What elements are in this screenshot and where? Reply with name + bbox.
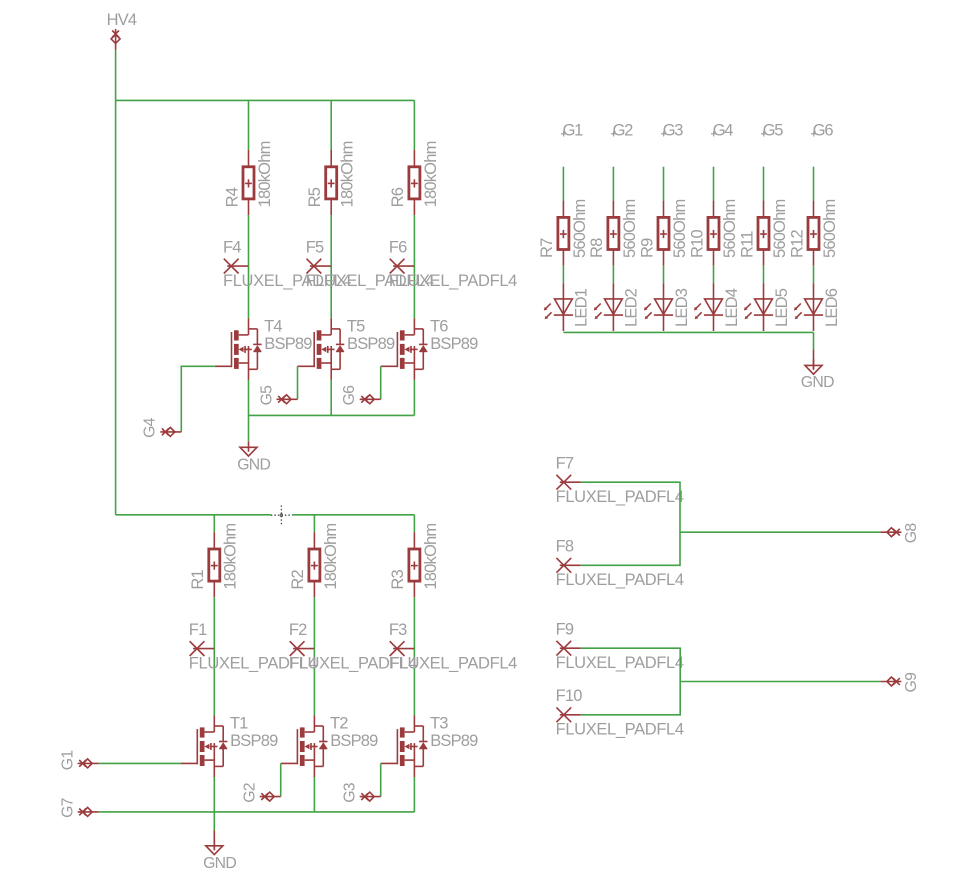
svg-text:G4: G4 — [713, 122, 734, 140]
resistor R5 — [326, 150, 337, 215]
ground — [206, 840, 223, 855]
wire top bus — [116, 99, 415, 101]
wire R12 to LED6 — [813, 266, 815, 284]
LED LED2 — [594, 283, 623, 331]
wire GND lead — [213, 831, 215, 851]
svg-text:FLUXEL_PADFL4: FLUXEL_PADFL4 — [556, 654, 684, 672]
svg-text:FLUXEL_PADFL4: FLUXEL_PADFL4 — [556, 721, 684, 739]
pad F1 FLUXEL_PADFL4 — [190, 641, 214, 656]
pad F10 FLUXEL_PADFL4 — [556, 707, 580, 722]
wire HV4 net vertical — [115, 50, 117, 101]
svg-text:F5: F5 — [306, 239, 324, 257]
resistor R1 — [209, 532, 220, 597]
svg-text:560Ohm: 560Ohm — [721, 199, 739, 258]
svg-text:F9: F9 — [556, 621, 574, 639]
resistor R6 — [409, 150, 420, 215]
svg-text:R5: R5 — [306, 187, 324, 207]
svg-text:G6: G6 — [341, 385, 358, 406]
svg-text:R3: R3 — [389, 569, 407, 589]
svg-text:560Ohm: 560Ohm — [621, 199, 639, 258]
wire cathode bus to GND — [813, 332, 815, 349]
svg-text:R4: R4 — [223, 187, 241, 207]
resistor R3 — [409, 532, 420, 597]
svg-text:BSP89: BSP89 — [330, 732, 378, 750]
resistor R7 — [558, 201, 569, 266]
pin G1 — [78, 759, 99, 768]
svg-text:G5: G5 — [763, 122, 784, 140]
svg-text:R7: R7 — [538, 238, 556, 258]
svg-text:LED6: LED6 — [823, 288, 841, 327]
wire G1 to R7 — [562, 167, 564, 201]
svg-text:R1: R1 — [189, 569, 207, 589]
svg-text:T6: T6 — [430, 317, 448, 335]
svg-text:F3: F3 — [389, 621, 407, 639]
resistor R12 — [808, 201, 819, 266]
svg-text:180kOhm: 180kOhm — [422, 141, 440, 207]
wire top block source bus — [249, 414, 415, 416]
wire T1 source to GND — [213, 777, 215, 831]
wire R11 to LED5 — [763, 266, 765, 284]
svg-text:G9: G9 — [903, 672, 920, 693]
svg-text:FLUXEL_PADFL4: FLUXEL_PADFL4 — [389, 272, 517, 290]
svg-text:G3: G3 — [341, 782, 358, 803]
wire T2 gate to G2 — [280, 763, 282, 796]
node G1 label — [561, 131, 566, 136]
svg-text:R9: R9 — [638, 238, 656, 258]
wire G7 line — [99, 811, 415, 813]
resistor R9 — [658, 201, 669, 266]
resistor R4 — [243, 150, 254, 215]
transistor T6 BSP89 — [381, 318, 428, 380]
transistor T4 BSP89 — [215, 318, 262, 380]
pad F3 FLUXEL_PADFL4 — [390, 641, 414, 656]
svg-text:GND: GND — [203, 855, 236, 872]
svg-text:560Ohm: 560Ohm — [821, 199, 839, 258]
svg-text:R12: R12 — [788, 230, 806, 258]
wire GND lead — [813, 349, 815, 368]
origin crosshair — [271, 505, 292, 525]
svg-text:F2: F2 — [289, 621, 307, 639]
svg-text:BSP89: BSP89 — [430, 335, 478, 353]
pin G8 — [880, 528, 901, 537]
svg-text:180kOhm: 180kOhm — [322, 524, 340, 590]
svg-text:G2: G2 — [241, 783, 258, 803]
pin HV4 — [111, 29, 120, 50]
pin G2 — [260, 792, 281, 801]
wire T3 gate to G3 — [380, 763, 382, 796]
ground — [240, 441, 257, 456]
wire T6 gate to G6 — [380, 366, 382, 399]
svg-text:G4: G4 — [142, 417, 159, 438]
LED LED3 — [644, 283, 673, 331]
svg-text:R6: R6 — [389, 187, 407, 207]
pad F5 FLUXEL_PADFL4 — [307, 259, 331, 274]
svg-text:HV4: HV4 — [107, 11, 137, 29]
wire R8 to LED2 — [612, 266, 614, 284]
svg-text:560Ohm: 560Ohm — [771, 199, 789, 258]
wire HV4 net down to lower bus — [115, 100, 117, 514]
svg-text:G8: G8 — [903, 523, 920, 544]
wire G1 to T1 gate — [99, 762, 181, 764]
wire G5 to R11 — [763, 167, 765, 201]
svg-text:BSP89: BSP89 — [430, 732, 478, 750]
svg-text:R11: R11 — [738, 231, 756, 258]
svg-text:LED1: LED1 — [573, 288, 591, 327]
node G3 label — [661, 131, 666, 136]
svg-text:180kOhm: 180kOhm — [256, 141, 274, 207]
LED LED6 — [794, 283, 823, 331]
wire lower bus — [116, 514, 415, 516]
pad F8 FLUXEL_PADFL4 — [556, 558, 580, 573]
transistor T3 BSP89 — [381, 716, 428, 778]
wire F7/F8 junction — [581, 482, 680, 565]
pad F2 FLUXEL_PADFL4 — [290, 641, 314, 656]
wire T2 source to G7 line — [313, 777, 315, 812]
wire G6 to R12 — [813, 167, 815, 201]
svg-text:180kOhm: 180kOhm — [222, 524, 240, 590]
svg-text:F6: F6 — [389, 239, 407, 257]
ground — [805, 359, 822, 374]
LED LED1 — [544, 283, 573, 331]
wire bus to R4 — [248, 100, 250, 150]
pin G5 — [277, 395, 298, 404]
svg-text:F1: F1 — [189, 621, 207, 639]
wire LED cathode bus — [563, 331, 813, 333]
svg-text:BSP89: BSP89 — [264, 335, 312, 353]
svg-text:G7: G7 — [59, 798, 76, 818]
svg-text:G3: G3 — [663, 122, 684, 140]
pin G7 — [78, 807, 99, 816]
pad F9 FLUXEL_PADFL4 — [556, 641, 580, 656]
wire bus to R3 — [413, 515, 415, 532]
pad F4 FLUXEL_PADFL4 — [224, 259, 248, 274]
wire R1 to T1 drain — [213, 597, 215, 715]
svg-text:FLUXEL_PADFL4: FLUXEL_PADFL4 — [389, 654, 517, 672]
svg-text:T5: T5 — [347, 317, 365, 335]
svg-text:R2: R2 — [289, 569, 307, 589]
transistor T1 BSP89 — [181, 716, 228, 778]
pin G3 — [360, 792, 381, 801]
node G4 label — [711, 131, 716, 136]
wire G4 to R10 — [713, 167, 715, 201]
wire R2 to T2 drain — [313, 597, 315, 715]
resistor R10 — [708, 201, 719, 266]
svg-text:F7: F7 — [556, 455, 574, 473]
svg-text:G6: G6 — [813, 122, 834, 140]
svg-text:F4: F4 — [223, 239, 241, 257]
svg-text:180kOhm: 180kOhm — [339, 141, 357, 207]
svg-text:R8: R8 — [588, 238, 606, 258]
svg-text:T4: T4 — [264, 317, 282, 335]
pad F7 FLUXEL_PADFL4 — [556, 475, 580, 490]
svg-text:F10: F10 — [556, 687, 583, 705]
wire R3 to T3 drain — [413, 597, 415, 715]
wire bus to R5 — [330, 100, 332, 150]
svg-text:GND: GND — [237, 456, 270, 473]
pad F6 FLUXEL_PADFL4 — [390, 259, 414, 274]
svg-text:G2: G2 — [613, 122, 634, 140]
transistor T2 BSP89 — [281, 716, 328, 778]
wire R10 to LED4 — [713, 266, 715, 284]
svg-text:BSP89: BSP89 — [347, 335, 395, 353]
wire bus to R6 — [413, 100, 415, 150]
resistor R8 — [608, 201, 619, 266]
svg-text:180kOhm: 180kOhm — [422, 524, 440, 590]
svg-text:LED3: LED3 — [673, 288, 691, 327]
svg-text:R10: R10 — [688, 230, 706, 258]
svg-text:G5: G5 — [259, 385, 276, 406]
wire bus to R2 — [313, 515, 315, 532]
wire T5 gate to G5 — [297, 366, 299, 399]
LED LED5 — [744, 283, 773, 331]
wire T4 source to GND — [248, 380, 250, 441]
svg-text:T1: T1 — [230, 715, 248, 733]
pin G6 — [360, 395, 381, 404]
svg-text:G1: G1 — [563, 122, 584, 140]
svg-text:T3: T3 — [430, 715, 448, 733]
svg-text:BSP89: BSP89 — [230, 732, 278, 750]
LED LED4 — [694, 283, 723, 331]
node G6 label — [811, 131, 816, 136]
resistor R11 — [758, 201, 769, 266]
wire R6 to T6 drain — [413, 215, 415, 318]
transistor T5 BSP89 — [298, 318, 345, 380]
wire R7 to LED1 — [562, 266, 564, 284]
svg-text:LED4: LED4 — [723, 288, 741, 327]
wire bus to R1 — [213, 515, 215, 532]
wire G2 to R8 — [612, 167, 614, 201]
wire to G9 — [680, 681, 880, 683]
svg-text:FLUXEL_PADFL4: FLUXEL_PADFL4 — [556, 488, 684, 506]
svg-text:F8: F8 — [556, 538, 574, 556]
resistor R2 — [309, 532, 320, 597]
pin G9 — [880, 677, 901, 686]
wire R9 to LED3 — [663, 266, 665, 284]
wire T4 gate to G4 — [181, 366, 215, 432]
svg-text:FLUXEL_PADFL4: FLUXEL_PADFL4 — [556, 571, 684, 589]
pin G4 — [160, 427, 181, 436]
svg-text:LED5: LED5 — [773, 288, 791, 327]
node G5 label — [761, 131, 766, 136]
svg-text:560Ohm: 560Ohm — [571, 199, 589, 258]
node G2 label — [611, 131, 616, 136]
svg-text:560Ohm: 560Ohm — [671, 199, 689, 258]
wire T5 source to bus — [330, 380, 332, 416]
wire R5 to T5 drain — [330, 215, 332, 318]
svg-text:LED2: LED2 — [623, 288, 641, 327]
wire to G8 — [680, 531, 880, 533]
svg-text:G1: G1 — [59, 750, 76, 771]
wire G3 to R9 — [663, 167, 665, 201]
svg-text:GND: GND — [801, 374, 834, 391]
wire T6 source to bus — [413, 380, 415, 416]
wire T3 source to G7 line — [413, 777, 415, 812]
wire F9/F10 junction — [581, 648, 680, 715]
svg-text:T2: T2 — [330, 715, 348, 733]
wire R4 to T4 drain — [248, 215, 250, 318]
